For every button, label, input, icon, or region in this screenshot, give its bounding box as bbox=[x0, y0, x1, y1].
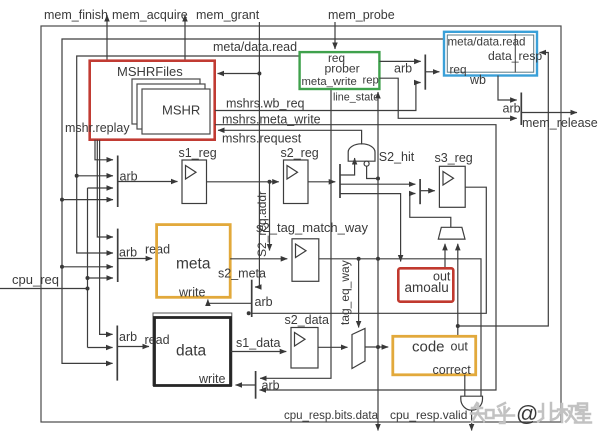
wire cpu_req riser bbox=[87, 188, 89, 348]
wire meta s2_meta output to tag match register bbox=[230, 258, 287, 260]
svg-text:wb: wb bbox=[469, 73, 486, 87]
svg-text:line_state: line_state bbox=[333, 92, 379, 104]
wire mshr.replay riser 2 to meta read arb bbox=[97, 140, 113, 237]
mux amoalu result (trapezoid) bbox=[438, 227, 465, 239]
wire wb arb output to wb box req bbox=[425, 71, 439, 73]
svg-text:arb: arb bbox=[262, 379, 280, 393]
prober box (green) bbox=[300, 52, 380, 89]
wire hit bar up into S2_hit AND gate bbox=[340, 158, 355, 175]
svg-text:s2_data: s2_data bbox=[285, 313, 330, 327]
node hit bar bbox=[339, 164, 341, 198]
svg-text:meta/data.read: meta/data.read bbox=[213, 40, 297, 54]
wire mshrs.meta_write (MSHRFiles right, wraps down right side to data write arb) bbox=[215, 125, 496, 390]
wire tap to s1 arb input bbox=[77, 175, 113, 177]
svg-text:cpu_resp.bits.data: cpu_resp.bits.data bbox=[284, 410, 379, 422]
wire prober meta/data.read wrap-around (prober left to meta read arb) bbox=[77, 56, 300, 253]
wire S2_req.addr riser down to s2_meta line bbox=[269, 182, 271, 251]
svg-text:mshr.replay: mshr.replay bbox=[65, 121, 130, 135]
wire cpu_req to s1 arb bbox=[88, 187, 114, 189]
junction prober wrap tap at s1 arb bbox=[75, 174, 79, 178]
svg-text:tag_eq_way: tag_eq_way bbox=[338, 260, 352, 325]
junction s3 wrap at meta write arb bbox=[247, 311, 251, 315]
svg-text:MSHRFiles: MSHRFiles bbox=[117, 64, 183, 79]
junction resp tap at code input bbox=[376, 345, 380, 349]
wire s3 mux bar output into s3_reg bbox=[420, 190, 435, 192]
wire line_state / resp vertical (prober bottom down to cpu_resp.bits.data) bbox=[377, 92, 379, 431]
wire tag match output to valid AND riser bbox=[319, 259, 481, 396]
wire correct down into valid AND gate bbox=[464, 375, 466, 396]
register s3_reg bbox=[439, 166, 465, 207]
svg-text:mem_release: mem_release bbox=[522, 116, 598, 130]
wire tag_eq_way down to data way mux select bbox=[358, 259, 360, 328]
wire s2_reg output to hit bar bbox=[308, 181, 335, 183]
register s2_tag_match_way bbox=[292, 239, 319, 281]
junction data_resp tap on code out bbox=[456, 324, 460, 328]
watermark 知乎 @北极星 (drawn as strokes) bbox=[471, 403, 591, 423]
svg-text:amoalu: amoalu bbox=[405, 280, 449, 295]
outer enclosure rectangle bbox=[41, 26, 561, 422]
wire hit bar to s3 mux bar bbox=[340, 183, 415, 185]
wire meta read arb output to meta box bbox=[118, 258, 153, 260]
svg-text:meta_write: meta_write bbox=[302, 76, 357, 88]
arbiter meta read arb bar bbox=[117, 229, 119, 282]
svg-text:correct: correct bbox=[433, 363, 472, 377]
svg-text:data: data bbox=[176, 343, 207, 360]
junction mem_grant branch bbox=[257, 72, 261, 76]
wire mem_finish (up arrow from MSHRFiles top) bbox=[106, 15, 108, 61]
svg-text:s2_tag_match_way: s2_tag_match_way bbox=[256, 220, 369, 235]
svg-text:data_resp: data_resp bbox=[488, 49, 542, 63]
svg-text:mshrs.wb_req: mshrs.wb_req bbox=[226, 97, 305, 111]
wire prober rep to mem_release arb bbox=[379, 78, 516, 118]
wire mem_grant (down then into MSHRFiles and down to meta write arb) bbox=[255, 22, 259, 287]
junction S2_req.addr tap bbox=[268, 180, 272, 184]
wire tap to meta read arb bbox=[62, 266, 113, 268]
wire s2_data output to way mux bbox=[318, 346, 348, 348]
wire code out up into mux bbox=[457, 244, 459, 336]
MSHRFiles box (red) bbox=[90, 61, 215, 140]
arbiter meta write arb bar bbox=[251, 280, 253, 317]
svg-text:s1_reg: s1_reg bbox=[179, 146, 217, 160]
code box (yellow) bbox=[393, 336, 476, 375]
wire data_resp (code out to wb box data_resp) bbox=[458, 53, 549, 327]
svg-text:meta: meta bbox=[176, 256, 211, 273]
svg-text:cpu_req: cpu_req bbox=[12, 272, 59, 287]
register s2_reg bbox=[284, 160, 309, 204]
junction cpu_req tap meta arb bbox=[86, 276, 90, 280]
svg-text:s2_reg: s2_reg bbox=[281, 146, 319, 160]
MSHR stacked boxes bbox=[132, 79, 210, 134]
wire amoalu out up into mux bbox=[444, 244, 446, 268]
junction tag_eq_way tap bbox=[357, 257, 361, 261]
wire way mux output to code box bbox=[365, 346, 388, 348]
arbiter mem_release arb bar bbox=[520, 93, 522, 126]
svg-text:s3_reg: s3_reg bbox=[435, 151, 473, 165]
wire mem_acquire (up arrow from MSHRFiles top) bbox=[184, 15, 186, 61]
wire prober write path down into data write arb bbox=[260, 89, 331, 378]
svg-text:s2_meta: s2_meta bbox=[218, 267, 266, 281]
inverter bubble on S2_hit gate input bbox=[364, 161, 369, 166]
wire wb release output down to mem_release arb bbox=[498, 76, 517, 101]
mux data way (skinny trapezoid) bbox=[352, 329, 365, 369]
wire s1_reg to s2_reg bbox=[207, 181, 279, 183]
wire cpu_resp.valid output bbox=[471, 410, 473, 430]
wire prober req to wb arb bbox=[379, 60, 420, 62]
wire cpu_req to meta read arb bbox=[88, 277, 114, 279]
svg-text:read: read bbox=[145, 333, 170, 347]
svg-text:req: req bbox=[450, 63, 467, 77]
svg-text:mshrs.request: mshrs.request bbox=[222, 132, 302, 146]
wire hit bar down to amoalu input bbox=[340, 194, 401, 262]
arbiter data read arb bar bbox=[116, 326, 118, 381]
wire cpu_req to data read arb bbox=[88, 347, 113, 349]
wire cpu_req feed bbox=[0, 288, 88, 290]
svg-text:write: write bbox=[178, 286, 205, 300]
svg-text:arb: arb bbox=[503, 102, 521, 116]
wire data s1_data output to s2_data register bbox=[231, 351, 287, 353]
junction bubble tap bbox=[376, 177, 380, 181]
wire data write arb output into data box bbox=[236, 384, 256, 386]
junction wrap tap at meta read arb bbox=[60, 265, 64, 269]
svg-text:MSHR: MSHR bbox=[162, 103, 200, 118]
wire tap to s1 arb bbox=[62, 199, 113, 201]
svg-text:@: @ bbox=[516, 401, 538, 426]
wire amoalu mux output up into s3 mux bar bbox=[410, 194, 451, 228]
wire mshrs.request (from S2_hit gate into MSHRFiles) bbox=[218, 130, 362, 144]
svg-text:mem_grant: mem_grant bbox=[196, 8, 260, 22]
junction wrap tap at s1 arb bbox=[60, 198, 64, 202]
register s2_data bbox=[291, 328, 318, 369]
svg-text:arb: arb bbox=[119, 246, 137, 260]
arbiter wb arb bar bbox=[424, 55, 426, 90]
wire S2_hit bubble to state line bbox=[367, 166, 378, 178]
wire s3 output wrap (s3_reg right, down, left into meta write arb bottom) bbox=[252, 187, 487, 313]
svg-text:rep: rep bbox=[363, 75, 379, 87]
wire s1 arb output to s1_reg bbox=[118, 181, 178, 183]
svg-text:out: out bbox=[451, 340, 469, 354]
wire mshr.replay riser 1 to s1 arb bbox=[95, 140, 113, 160]
svg-text:write: write bbox=[198, 372, 225, 386]
wb box (blue) bbox=[444, 32, 537, 76]
gate cpu_resp.valid AND bbox=[461, 396, 483, 410]
wire meta write arb output into meta box bottom bbox=[208, 300, 252, 304]
data box (black) bbox=[155, 318, 231, 386]
meta box (yellow) bbox=[157, 225, 231, 298]
svg-text:mem_acquire: mem_acquire bbox=[112, 8, 188, 22]
svg-text:mem_probe: mem_probe bbox=[328, 8, 395, 22]
wb box inner border bbox=[447, 35, 533, 72]
svg-text:prober: prober bbox=[325, 62, 360, 76]
register s1_reg bbox=[182, 160, 207, 204]
svg-text:cpu_resp.valid: cpu_resp.valid bbox=[390, 408, 467, 422]
junction resp line crossing tag line bbox=[376, 257, 380, 261]
wire wb meta/data.read wrap-around (blue box to left edge down to data read arb) bbox=[62, 39, 444, 363]
svg-text:s1_data: s1_data bbox=[236, 336, 281, 350]
wire data read arb output to data box bbox=[117, 346, 149, 348]
wire mem_probe into prober top bbox=[334, 22, 336, 49]
node s3 mux bar bbox=[419, 179, 421, 204]
junction cpu_req joins riser bbox=[86, 287, 90, 291]
svg-text:S2_hit: S2_hit bbox=[379, 150, 415, 164]
svg-text:meta/data.read: meta/data.read bbox=[448, 36, 526, 49]
arbiter s1 arb bar bbox=[117, 156, 119, 208]
wire mshrs.wb_req (MSHRFiles to wb arb) bbox=[215, 83, 421, 111]
svg-text:mem_finish: mem_finish bbox=[44, 8, 108, 22]
svg-text:code: code bbox=[412, 339, 445, 356]
wire mem_release output bbox=[521, 112, 577, 114]
svg-text:arb: arb bbox=[119, 330, 137, 344]
amoalu box (red) bbox=[398, 268, 453, 301]
svg-text:arb: arb bbox=[255, 295, 273, 309]
svg-text:mshrs.meta_write: mshrs.meta_write bbox=[222, 113, 321, 127]
wire mshr.replay riser 3 to data read arb bbox=[100, 140, 113, 335]
svg-text:arb: arb bbox=[394, 62, 412, 76]
arbiter data write arb bar bbox=[255, 371, 257, 399]
gate S2_hit AND bbox=[348, 144, 375, 161]
data box stacked sheet bbox=[153, 313, 232, 386]
